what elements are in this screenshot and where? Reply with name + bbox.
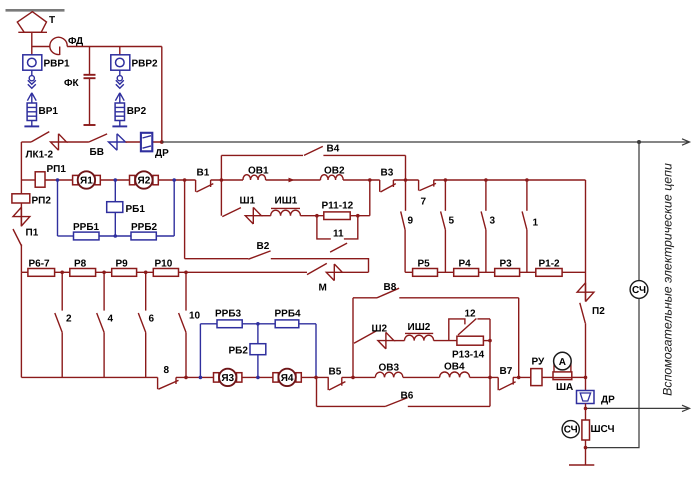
svg-text:ОВ1: ОВ1 — [248, 166, 269, 177]
svg-text:Р9: Р9 — [116, 259, 129, 270]
switch P1 — [13, 203, 30, 246]
relay RP2 — [12, 180, 30, 203]
wire V8 line — [353, 297, 377, 299]
relay RVR1 — [23, 55, 42, 70]
switch V2 — [248, 251, 270, 259]
svg-text:5: 5 — [449, 216, 455, 227]
wire R11-12 right — [350, 215, 370, 217]
svg-text:В6: В6 — [401, 391, 414, 402]
wire bottom bus left — [21, 376, 157, 378]
svg-text:РВР2: РВР2 — [132, 59, 159, 70]
svg-text:Р13-14: Р13-14 — [452, 350, 485, 361]
ammeter A — [554, 363, 571, 373]
resistor R10 — [153, 269, 178, 277]
fuse VR1 — [27, 103, 36, 121]
wire blue bus 2 — [200, 323, 217, 325]
svg-text:РБ1: РБ1 — [126, 204, 146, 215]
relay RB2 — [250, 324, 266, 378]
wire aux counter down — [586, 298, 640, 447]
switch M — [307, 263, 342, 280]
svg-text:1: 1 — [533, 218, 539, 229]
wire left drop from LK1-2 line — [20, 142, 22, 180]
resistor RRB2 — [131, 232, 156, 240]
svg-text:В7: В7 — [500, 366, 513, 377]
switch 5 — [441, 180, 446, 272]
svg-text:БВ: БВ — [90, 147, 104, 158]
motor armature Ya1 — [73, 171, 101, 188]
wire DR to ShSCh — [585, 404, 587, 421]
relay RU — [531, 369, 542, 386]
wire right column upper — [585, 180, 587, 285]
svg-text:Ш1: Ш1 — [240, 196, 256, 207]
svg-text:Р11-12: Р11-12 — [322, 201, 354, 212]
svg-text:Ш2: Ш2 — [372, 324, 388, 335]
reactor DR (lower) — [577, 391, 595, 404]
wire right drop — [161, 47, 163, 143]
wire bus — [479, 271, 495, 273]
svg-text:СЧ: СЧ — [564, 425, 578, 436]
switch 3 — [481, 180, 486, 272]
auxiliary circuits second line — [586, 405, 690, 411]
wire ISh1 to R11-12 — [300, 215, 323, 217]
wire V2 branch drop — [184, 180, 186, 259]
wire RVR2 drop — [119, 47, 121, 56]
svg-text:4: 4 — [108, 314, 114, 325]
wire Sh1 branch drop — [220, 180, 222, 216]
svg-text:8: 8 — [164, 365, 170, 376]
switch 6 — [138, 272, 145, 377]
switch 2 — [55, 272, 62, 377]
wire V3 to switch7 — [393, 179, 418, 181]
wire M to V2 corner — [342, 271, 368, 273]
resistor RRB3 — [217, 320, 242, 328]
wire Sh1 line up to bus — [369, 180, 371, 216]
wire left edge down — [20, 272, 22, 377]
wire main bus right — [434, 179, 586, 181]
resistor R4 — [454, 269, 479, 277]
switch LK1-2 — [21, 132, 66, 151]
wire Ya2 to V1 — [158, 179, 195, 181]
wire R13-14 right — [483, 340, 490, 342]
switch V1 — [196, 180, 214, 192]
resistor R13-14 — [457, 336, 484, 345]
field winding OV1 — [243, 175, 266, 180]
wire V6 line right — [408, 405, 490, 407]
wire blue bus 1 — [58, 235, 74, 237]
svg-text:М: М — [319, 283, 327, 294]
svg-text:В8: В8 — [384, 282, 397, 293]
wire OV2 to V3 — [343, 179, 380, 181]
svg-text:ОВ2: ОВ2 — [324, 166, 345, 177]
ground lead VR1 — [24, 121, 39, 127]
svg-text:ВР2: ВР2 — [127, 106, 147, 117]
wire bus — [137, 271, 154, 273]
switch 10 — [179, 272, 186, 377]
svg-text:Р3: Р3 — [500, 259, 513, 270]
node junction top right — [160, 140, 164, 144]
svg-text:Р8: Р8 — [74, 259, 87, 270]
node junction dots red — [60, 178, 587, 449]
wire right column lower — [585, 323, 587, 390]
motor armature Ya3 — [214, 369, 242, 386]
svg-text:Т: Т — [49, 15, 55, 26]
svg-text:ИШ2: ИШ2 — [408, 322, 431, 333]
wire V6 branch left leg — [316, 377, 318, 406]
wire V6 line left — [317, 405, 386, 407]
inductor FD (smoothing reactor arc) — [50, 37, 67, 54]
inductive shunt ISh1 — [271, 208, 301, 215]
switch 9 — [401, 180, 406, 272]
node aux junction — [637, 140, 641, 144]
wire OV3 to OV4 — [403, 376, 440, 378]
wire bus — [55, 271, 70, 273]
svg-text:РРБ4: РРБ4 — [275, 309, 302, 320]
motor armature Ya4 — [273, 369, 301, 386]
svg-text:В5: В5 — [329, 367, 342, 378]
reactor DR — [141, 133, 152, 152]
wire left resistor bus — [21, 271, 28, 273]
switch V5 — [328, 377, 345, 390]
svg-text:РВР1: РВР1 — [44, 59, 71, 70]
wire V5 to OV3 — [342, 376, 376, 378]
wire V2 line right — [271, 259, 369, 273]
wire P1 down to resistor bus — [20, 244, 22, 272]
wire ShSCh to ground — [585, 440, 587, 465]
field winding OV3 — [375, 372, 403, 377]
svg-text:Вспомогательные электрические: Вспомогательные электрические цепи — [661, 163, 675, 396]
svg-text:6: 6 — [149, 314, 155, 325]
wire bus — [520, 271, 536, 273]
svg-text:РРБ3: РРБ3 — [215, 309, 242, 320]
blue balance circuit 2 left leg — [199, 324, 201, 378]
relay RB1 — [107, 180, 123, 236]
svg-text:Я3: Я3 — [221, 373, 234, 384]
svg-text:ДР: ДР — [601, 395, 615, 406]
wire V4 branch — [221, 155, 405, 180]
wire Sh1 to ISh1 — [261, 215, 270, 217]
svg-text:11: 11 — [333, 229, 344, 240]
wire top bus to right — [67, 46, 162, 48]
svg-text:А: А — [559, 357, 566, 368]
wire ISh2 to loop — [434, 340, 457, 342]
wire to BV — [67, 141, 89, 143]
node direction arrow — [289, 178, 295, 183]
svg-text:Р6-7: Р6-7 — [29, 259, 51, 270]
wire V8 branch left leg — [352, 298, 354, 378]
switch P2 — [577, 283, 594, 323]
svg-text:РП2: РП2 — [32, 196, 52, 207]
resistor R3 — [495, 269, 520, 277]
switch 12 bypass — [449, 319, 490, 341]
resistor R6-7 — [28, 269, 55, 277]
svg-text:В2: В2 — [257, 241, 270, 252]
field winding OV4 — [440, 372, 470, 377]
wire ShA to column — [572, 376, 586, 378]
svg-text:ОВ3: ОВ3 — [379, 363, 400, 374]
wire main bus left — [21, 179, 35, 181]
svg-text:ВР1: ВР1 — [39, 106, 59, 117]
counter SCh (bottom) — [562, 421, 579, 438]
switch V7 — [498, 377, 515, 390]
disconnector contacts under RVR1 — [27, 70, 36, 103]
svg-text:П2: П2 — [592, 306, 605, 317]
resistor R1-2 — [536, 269, 562, 277]
svg-text:Р10: Р10 — [155, 259, 173, 270]
svg-text:РУ: РУ — [532, 357, 546, 368]
node top bus — [32, 46, 50, 48]
svg-text:ДР: ДР — [155, 148, 169, 159]
switch 1 — [522, 180, 527, 272]
wire bus to right column — [562, 271, 585, 273]
svg-text:ФД: ФД — [68, 36, 83, 47]
svg-text:ОВ4: ОВ4 — [444, 362, 465, 373]
catenary contact wire — [6, 9, 65, 12]
switch V3 — [380, 180, 396, 192]
field winding OV2 — [320, 175, 343, 180]
wire Ya3 to Ya4 — [242, 376, 273, 378]
wire bus — [438, 271, 454, 273]
wire RU to ShA — [542, 376, 553, 378]
wire Ya1 to Ya2 — [100, 179, 129, 181]
svg-text:В4: В4 — [327, 144, 340, 155]
switch 7 — [419, 180, 436, 191]
svg-text:Я1: Я1 — [80, 176, 93, 187]
counter SCh (top) — [630, 281, 648, 299]
resistor RRB1 — [74, 232, 100, 240]
svg-text:ЛК1-2: ЛК1-2 — [26, 150, 54, 161]
switch Sh1 — [222, 207, 261, 224]
wire blue bus 2 mid — [242, 323, 275, 325]
wire blue bus 1 mid — [99, 235, 131, 237]
ground lead VR2 — [112, 121, 127, 127]
blue balance circuit 2 right leg — [315, 324, 317, 378]
svg-text:9: 9 — [408, 216, 414, 227]
wire right resistor bus — [405, 271, 413, 273]
switch 8 — [158, 377, 179, 389]
wire Sh2 to ISh2 — [394, 340, 405, 342]
resistor R8 — [70, 269, 96, 277]
wire bus to M — [179, 271, 308, 273]
svg-text:В1: В1 — [197, 168, 210, 179]
svg-text:Р4: Р4 — [459, 259, 472, 270]
inductive shunt ISh2 — [405, 333, 434, 340]
svg-text:3: 3 — [490, 216, 496, 227]
svg-text:Р5: Р5 — [418, 259, 431, 270]
node junction dots blue — [56, 178, 260, 379]
svg-text:РРБ2: РРБ2 — [131, 222, 158, 233]
shunt ShA — [553, 372, 572, 380]
svg-text:ИШ1: ИШ1 — [275, 196, 298, 207]
resistor R9 — [112, 269, 137, 277]
svg-text:12: 12 — [465, 309, 477, 320]
svg-text:10: 10 — [189, 311, 201, 322]
svg-text:7: 7 — [421, 197, 427, 208]
wire OV4 to V7 — [470, 376, 499, 378]
svg-text:Я4: Я4 — [281, 373, 294, 384]
fuse VR2 — [115, 103, 124, 121]
svg-text:ФК: ФК — [64, 78, 80, 89]
resistor RRB4 — [275, 320, 299, 328]
wire Ya4 to V5 — [301, 376, 328, 378]
svg-text:В3: В3 — [381, 168, 394, 179]
motor armature Ya2 — [130, 171, 159, 188]
switch V8 — [377, 288, 399, 298]
blue balance circuit 1 left leg — [57, 180, 59, 236]
svg-text:СЧ: СЧ — [632, 285, 646, 296]
relay RP1 — [35, 172, 45, 187]
pantograph T — [17, 12, 47, 33]
capacitor FK — [84, 47, 96, 126]
wire RP1 to Ya1 — [45, 179, 73, 181]
wire pantograph down — [31, 32, 33, 55]
svg-text:РП1: РП1 — [47, 164, 67, 175]
wire V7 to RU — [513, 376, 531, 378]
ground — [569, 464, 594, 466]
wire blue bus 2 right — [299, 323, 316, 325]
switch V4 — [304, 146, 323, 155]
resistor R11-12 — [324, 212, 350, 220]
wire to DR — [126, 141, 162, 143]
svg-text:Я2: Я2 — [138, 176, 151, 187]
switch 4 — [97, 272, 104, 377]
svg-text:ШСЧ: ШСЧ — [591, 424, 615, 435]
wire aux down to counter — [638, 142, 640, 281]
svg-text:ША: ША — [556, 382, 573, 393]
wire V1 to OV1 — [211, 179, 243, 181]
wire V2 line left — [185, 258, 249, 260]
switch Sh2 — [354, 331, 394, 349]
wire blue bus 1 right — [156, 235, 174, 237]
switch V6 — [385, 398, 407, 407]
svg-text:РБ2: РБ2 — [229, 346, 249, 357]
blue balance circuit 1 right leg — [173, 180, 175, 236]
svg-text:Р1-2: Р1-2 — [539, 259, 561, 270]
wire right leg through bus to V6 — [489, 319, 491, 407]
wire bus — [96, 271, 112, 273]
resistor R5 — [413, 269, 438, 277]
switch 11 bypass — [317, 216, 358, 252]
shunt ShSCh — [582, 420, 590, 440]
svg-text:РРБ1: РРБ1 — [73, 222, 100, 233]
switch BV — [89, 134, 126, 151]
wire V8 right leg — [518, 298, 520, 378]
auxiliary circuits feed line — [162, 139, 690, 145]
svg-text:2: 2 — [66, 314, 72, 325]
disconnector contacts under RVR2 — [115, 70, 124, 103]
wire bus to Ya3 — [176, 376, 214, 378]
wire V8 line right — [399, 297, 518, 299]
svg-text:П1: П1 — [26, 228, 39, 239]
wire OV1 to OV2 — [266, 179, 321, 181]
relay RVR2 — [111, 55, 130, 70]
